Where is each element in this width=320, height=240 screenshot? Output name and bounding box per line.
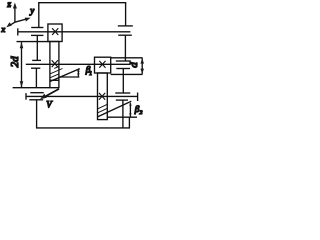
beta1 reference line: [59, 76, 79, 78]
G1 cross mark: [52, 28, 58, 35]
svg-text:2d: 2d: [9, 56, 21, 68]
shaft III right end cap: [137, 93, 139, 102]
shaft I: [18, 31, 131, 33]
dimension d: [111, 58, 144, 75]
2d top extension line: [17, 41, 50, 43]
beta2 angle arrow: [129, 103, 131, 117]
svg-text:V: V: [46, 100, 53, 110]
G4 cross mark: [99, 93, 105, 100]
coordinate axes: [0, 0, 34, 34]
d dimension line: [141, 58, 143, 74]
velocity arrow V: [40, 89, 59, 110]
beta2 reference line: [107, 116, 137, 118]
bearing shaft I right: [118, 26, 133, 61]
gear G3 on shaft II: [95, 57, 111, 73]
bearing shaft III left: [29, 93, 44, 129]
bearing shaft II left: [31, 60, 41, 87]
2d dimension line: [21, 42, 23, 87]
helix angle beta2: [98, 101, 143, 117]
z axis: [14, 8, 16, 23]
bottom rail: [36, 127, 130, 129]
G2 inner bottom line: [50, 79, 59, 81]
svg-text:y: y: [29, 6, 34, 16]
svg-text:1: 1: [89, 71, 92, 77]
y axis: [15, 19, 27, 22]
bearing shaft I left: [31, 28, 43, 61]
shaft I left end cap: [17, 28, 19, 35]
shaft II: [26, 63, 131, 65]
svg-text:2: 2: [140, 110, 143, 116]
helix angle beta1: [50, 65, 92, 82]
mid rail (2d bottom extension): [13, 87, 50, 89]
x axis: [10, 22, 15, 25]
G4 hatch lines: [98, 104, 108, 113]
d top extension line: [111, 57, 143, 59]
svg-text:z: z: [6, 0, 11, 10]
gear G4 (tall, meshing below G3): [98, 73, 108, 120]
beta2 tooth line (hatch extended): [98, 101, 132, 117]
G3 cross mark: [99, 61, 105, 68]
shaft III: [26, 95, 138, 97]
frame left wall upper: [38, 2, 40, 27]
dimension 2d: [9, 42, 50, 88]
frame right wall upper: [125, 2, 127, 25]
gear G2 (tall, meshing below G1): [50, 42, 59, 88]
G2 cross mark: [52, 60, 58, 67]
svg-text:d: d: [128, 62, 140, 68]
frame right wall bottom: [128, 117, 130, 128]
bearing shaft II right: [116, 61, 131, 93]
svg-text:x: x: [0, 24, 5, 34]
shaft III left end cap: [25, 93, 27, 100]
G2 hatch lines: [50, 66, 63, 77]
frame top rail: [38, 2, 126, 4]
bearing shaft III right: [115, 93, 130, 128]
gear G1 on shaft I: [48, 24, 62, 42]
beta1 angle arrow: [77, 69, 79, 76]
beta1 tooth line (hatch extended): [50, 69, 80, 82]
d bottom extension line: [111, 73, 143, 75]
